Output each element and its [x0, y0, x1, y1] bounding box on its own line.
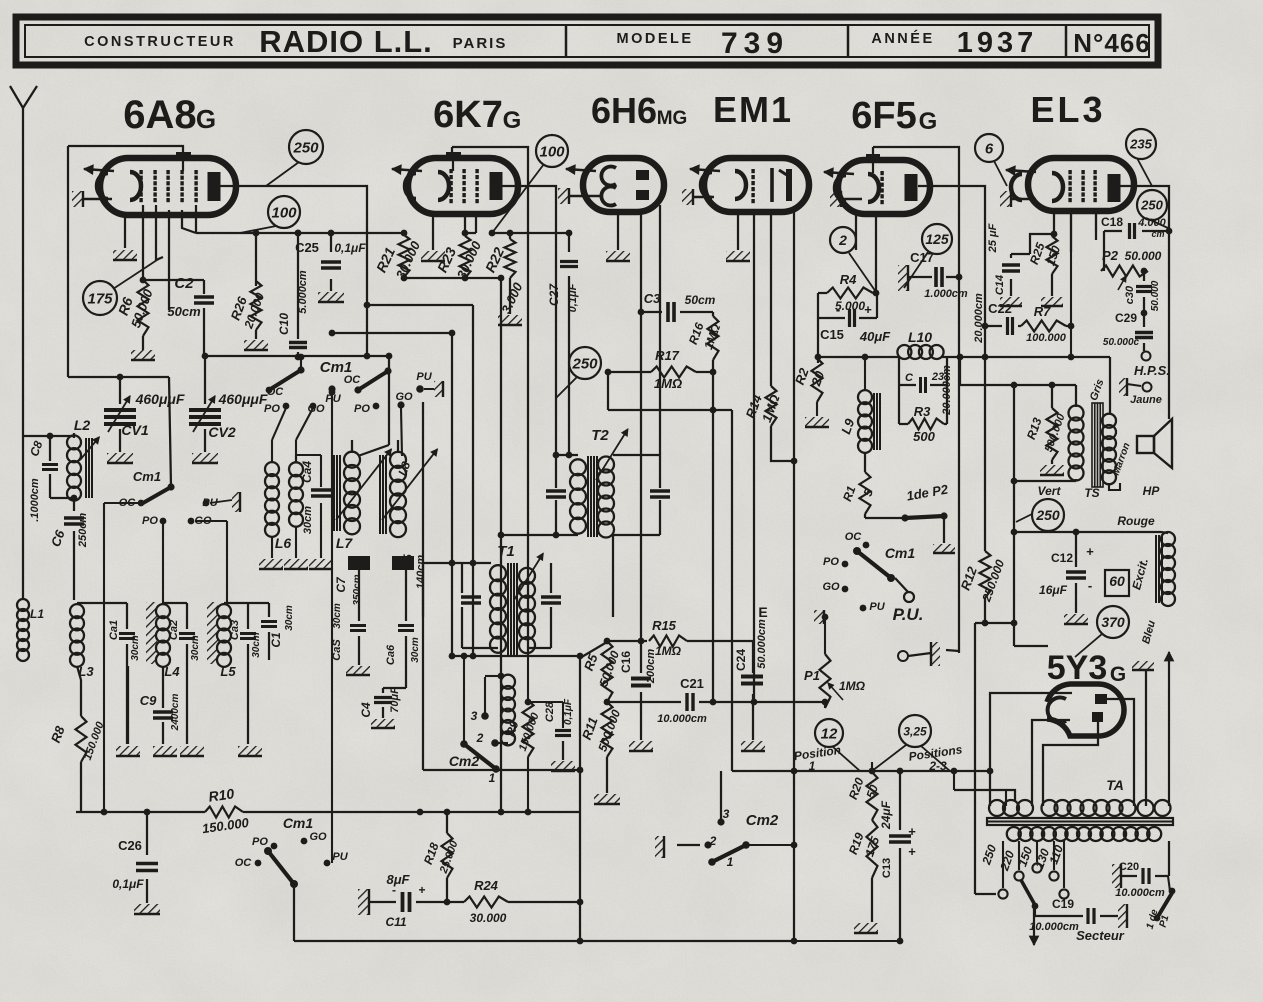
capacitor T2 left	[546, 491, 566, 497]
switch Cm1 osc blade1	[269, 366, 305, 390]
capacitor C7 block	[348, 556, 370, 570]
wire R21R23 bottoms	[401, 275, 505, 282]
label C30	[1124, 280, 1161, 311]
wire L6b feed	[296, 408, 313, 463]
label C8	[27, 439, 46, 459]
wire TS sec bot	[1109, 483, 1120, 490]
capacitor C14	[1002, 265, 1020, 271]
wire R6 bottom ground	[142, 336, 144, 350]
wire Ca3 leads	[224, 603, 248, 744]
wire Cm2R out	[746, 842, 797, 849]
svg-text:8μF: 8μF	[386, 872, 410, 887]
label R7	[1026, 304, 1067, 344]
node 175	[83, 281, 117, 315]
bus C21	[604, 699, 825, 706]
resistor R17	[651, 367, 696, 378]
wire R16	[712, 312, 714, 372]
svg-text:30cm: 30cm	[130, 635, 141, 661]
label PO osc2	[354, 403, 379, 415]
label 1deP2	[905, 481, 950, 503]
label C4	[359, 687, 401, 718]
svg-text:140cm: 140cm	[415, 555, 427, 589]
wire L6 gnds	[272, 526, 296, 558]
wire R15 line	[580, 638, 753, 658]
label C26	[112, 838, 144, 891]
capacitor CaS	[350, 626, 366, 631]
wire Ca4 gnd	[320, 503, 322, 558]
wire 5Y3 cath bottom	[1032, 720, 1070, 806]
svg-text:C28: C28	[544, 701, 556, 722]
wire x1014	[1011, 382, 1048, 646]
coil L6a	[265, 462, 279, 537]
resistor R8	[76, 716, 87, 762]
wire 6F5 anode	[918, 186, 985, 551]
label C28	[544, 698, 574, 725]
svg-text:RADIO L.L.: RADIO L.L.	[259, 24, 433, 59]
capacitor C10	[289, 343, 307, 348]
tube V3 cathode ground	[558, 188, 600, 204]
wire CV1 to Cm1 blade	[169, 377, 171, 487]
svg-text:C12: C12	[1051, 551, 1073, 565]
wire T2 cap left stubs	[555, 455, 557, 535]
label EM1	[713, 89, 793, 130]
TA taps	[1003, 841, 1064, 888]
label C25	[295, 240, 366, 255]
tube V6 anode plate	[1108, 174, 1121, 202]
wire T2 bottom	[498, 532, 578, 539]
svg-text:C25: C25	[295, 240, 319, 255]
capacitor C30	[1136, 287, 1152, 292]
svg-text:370: 370	[1101, 614, 1125, 630]
label C24	[734, 619, 768, 671]
capacitor Ca1	[119, 634, 135, 639]
wire EL3 screen	[1071, 211, 1096, 357]
resistor R23	[460, 236, 471, 278]
tube V5 grids	[880, 171, 883, 204]
label R9	[503, 710, 542, 752]
wire x501 long	[500, 278, 502, 812]
svg-text:Cm1: Cm1	[283, 815, 314, 831]
svg-text:0,1μF: 0,1μF	[567, 283, 579, 312]
wire T2 right cap	[613, 500, 660, 535]
wire Ca6 leads	[383, 570, 406, 693]
svg-text:C17: C17	[910, 250, 934, 265]
wire T1 top	[423, 560, 491, 617]
label GO osc2	[395, 391, 413, 409]
coil L7	[334, 452, 360, 535]
wallhatch PU	[931, 642, 940, 666]
wire 6K7 cathode	[432, 214, 434, 250]
tube V2 anode plate	[490, 172, 503, 200]
label C5b	[401, 554, 427, 589]
svg-text:50.000c: 50.000c	[1103, 337, 1140, 348]
variable capacitor CV2	[189, 396, 221, 432]
title divider 1	[565, 25, 568, 57]
label Jaune	[1130, 394, 1162, 406]
svg-text:739: 739	[721, 27, 789, 60]
svg-text:ANNÉE: ANNÉE	[871, 30, 934, 47]
resistor R26	[251, 281, 262, 330]
svg-text:4.000: 4.000	[1137, 217, 1166, 229]
wire C18 box	[1104, 230, 1168, 232]
node 250 mid	[569, 347, 601, 379]
wire L6a feed	[272, 408, 286, 463]
node 125	[922, 224, 952, 254]
svg-text:+: +	[864, 302, 872, 317]
svg-text:C5: C5	[401, 554, 415, 570]
svg-text:1.000cm: 1.000cm	[924, 288, 968, 300]
coil L2 arrow	[80, 437, 99, 460]
label Cm1 osc	[320, 359, 353, 376]
svg-text:C11: C11	[385, 915, 406, 929]
capacitor C15	[836, 302, 872, 327]
capacitor C16	[631, 679, 651, 686]
svg-text:50cm: 50cm	[685, 293, 716, 307]
svg-text:50.000: 50.000	[1150, 280, 1161, 311]
svg-text:GO: GO	[822, 581, 840, 593]
bus positions	[732, 768, 993, 775]
svg-text:R4: R4	[840, 272, 857, 287]
label Gris	[1088, 378, 1107, 403]
tube V1 grids	[139, 170, 197, 202]
wire Cm1b down	[293, 884, 295, 941]
tube V7 cathode	[1048, 698, 1066, 723]
wire 6K7 topcap loop	[452, 147, 528, 233]
label R18	[421, 838, 461, 875]
wire C3 line	[641, 311, 713, 313]
tube V4 grids	[751, 169, 754, 203]
wire col x104	[101, 503, 139, 815]
wire C11 line	[370, 899, 583, 906]
wire C26 v	[146, 812, 148, 903]
svg-text:100: 100	[271, 204, 297, 221]
wire R12 bottom	[975, 598, 1017, 626]
label Cm2 left	[449, 709, 496, 785]
capacitor C25	[321, 262, 341, 268]
bus y770 left	[423, 769, 580, 771]
svg-text:MG: MG	[657, 108, 688, 129]
wire GO2 to L8	[401, 408, 402, 456]
wire EM1 pin2	[751, 212, 758, 705]
label 8uF	[385, 872, 410, 929]
pointer 175	[113, 258, 160, 289]
label C17	[910, 250, 968, 300]
svg-text:6K7: 6K7	[433, 94, 503, 136]
transformer TA core	[987, 818, 1173, 825]
wire R19 gnd	[871, 878, 873, 922]
label 739	[721, 27, 789, 60]
wire T2 right top	[613, 454, 660, 456]
svg-text:Ca1: Ca1	[108, 620, 120, 640]
tube V5 top cap	[866, 154, 880, 173]
svg-text:3,25: 3,25	[903, 724, 927, 738]
capacitor C18	[1130, 223, 1135, 239]
label R16	[686, 321, 724, 352]
tube V3 cathodes	[601, 167, 616, 206]
wire C30 chain	[1141, 268, 1148, 327]
wire y941 ext	[794, 940, 900, 942]
coil L4	[146, 602, 170, 667]
svg-text:.1000cm: .1000cm	[29, 478, 41, 522]
label C21	[657, 676, 707, 725]
switch Cm1 bottom blade	[264, 847, 298, 888]
label CV2	[208, 391, 267, 440]
label PU osc1	[325, 385, 341, 405]
wire EL3 anode	[1120, 186, 1172, 419]
wire T2 sec bottom drop	[612, 535, 614, 617]
svg-text:Ca6: Ca6	[385, 644, 397, 665]
label Ca4	[300, 461, 314, 534]
svg-text:G: G	[503, 107, 522, 134]
tube V5 anode plate	[905, 174, 918, 201]
label C3	[644, 291, 716, 307]
svg-text:TS: TS	[1084, 486, 1099, 500]
label TA	[1106, 777, 1124, 793]
ground CV1	[107, 453, 133, 463]
ground C28	[551, 761, 575, 771]
resistor R4	[827, 288, 873, 299]
svg-text:T2: T2	[591, 427, 609, 444]
wire x794 down	[791, 461, 798, 944]
svg-text:2: 2	[838, 232, 847, 248]
pointer 100 bus	[240, 226, 276, 233]
pointer 250 el3	[1146, 218, 1168, 228]
svg-text:c30: c30	[1124, 285, 1136, 304]
wire anode stair	[364, 302, 473, 309]
svg-text:Cm2: Cm2	[449, 753, 480, 769]
label R20	[846, 776, 881, 802]
svg-text:6F5: 6F5	[851, 95, 916, 137]
label Vert	[1038, 484, 1062, 498]
label R14	[743, 392, 783, 424]
svg-text:10.000cm: 10.000cm	[1029, 921, 1079, 933]
wire C9 leads	[162, 666, 164, 744]
wire L10 loop sides	[899, 357, 947, 420]
capacitor C11	[392, 883, 426, 912]
wallhatch C19	[1118, 904, 1127, 928]
title divider 2	[847, 25, 850, 57]
wire C17 line	[909, 274, 962, 281]
resistor R7	[1021, 321, 1066, 332]
label L9	[838, 416, 858, 436]
label EL3	[1030, 89, 1105, 130]
label Positions23	[908, 742, 964, 773]
transformer TA secondary	[1007, 827, 1161, 841]
wire C16 v	[640, 312, 642, 673]
tube V2 heater arrow	[392, 165, 422, 174]
tube V1 top cap	[176, 152, 191, 171]
svg-text:Cm2: Cm2	[746, 812, 779, 829]
tube V4 heater arrow	[690, 165, 720, 174]
bus y941	[294, 938, 794, 945]
node 250 anode V1	[289, 130, 323, 164]
wire R23 stem	[462, 214, 476, 236]
wire TA sel down	[1034, 906, 1036, 916]
switch Cm2R blade	[708, 841, 750, 866]
svg-text:C14: C14	[994, 275, 1006, 295]
tube V2 grids	[449, 169, 478, 203]
tube V4 cathode ground	[682, 189, 714, 205]
pointer 250 mid	[556, 377, 577, 398]
wire 6A8 grid down d	[168, 210, 170, 310]
svg-text:70μF: 70μF	[389, 687, 401, 713]
transformer TA primary	[989, 800, 1171, 816]
svg-text:C9: C9	[140, 693, 157, 708]
label Ca6	[385, 637, 421, 665]
svg-text:250: 250	[1035, 507, 1060, 523]
bus mid verticals	[449, 305, 473, 659]
ground 1deP2	[933, 544, 955, 553]
svg-text:250: 250	[571, 355, 598, 372]
wire T1 cap stubs	[462, 563, 498, 648]
resistor R14	[766, 386, 777, 426]
ground L6a	[259, 559, 283, 569]
wire y333	[329, 330, 456, 337]
wire R22 bot	[509, 278, 511, 314]
pointer 12	[833, 747, 860, 771]
wire L7 top stub	[352, 440, 398, 453]
svg-text:250: 250	[292, 139, 319, 156]
wire coilbank feeds	[163, 521, 227, 605]
svg-text:PU: PU	[332, 851, 348, 863]
svg-text:+: +	[908, 844, 916, 859]
svg-text:460μμF: 460μμF	[218, 391, 268, 407]
svg-text:MODELE: MODELE	[616, 31, 693, 47]
wire 6F5 grid	[855, 214, 857, 250]
wire EL3 g pins	[1054, 211, 1096, 252]
label 6K7G	[433, 94, 521, 136]
svg-text:TA: TA	[1106, 777, 1124, 793]
ground CaS	[346, 666, 370, 675]
svg-text:L3: L3	[78, 664, 94, 679]
svg-text:-: -	[1088, 578, 1092, 593]
tube V2 6K7G envelope	[408, 158, 518, 214]
tube V1 cathode	[97, 172, 141, 200]
label C29	[1103, 311, 1140, 348]
svg-text:GO: GO	[194, 515, 212, 527]
label R6	[115, 286, 156, 329]
capacitor C3	[668, 302, 674, 322]
label CV1	[121, 391, 184, 438]
label R5	[581, 649, 622, 689]
label C22	[988, 301, 1012, 316]
wire R13 gnd	[1051, 460, 1053, 464]
wire R20 top	[871, 762, 873, 772]
svg-text:500: 500	[913, 429, 935, 444]
wire R1 bot	[865, 514, 905, 518]
wire EM1 pin4	[793, 212, 795, 461]
label 20000cm r	[941, 365, 953, 416]
wallhatch C17	[898, 265, 908, 291]
resistor R11	[602, 702, 613, 757]
wire 6H6 diode down	[638, 212, 645, 315]
wire EM1 pin3	[770, 212, 772, 386]
switch Cm2L blade	[460, 740, 500, 773]
coil L1	[17, 599, 29, 661]
svg-text:CaS: CaS	[331, 639, 343, 661]
label C13	[879, 800, 893, 878]
transformer T1 arrow	[514, 553, 543, 600]
wire C29 bot	[1143, 343, 1145, 351]
wire R4 box	[815, 290, 880, 363]
transformer T2	[570, 456, 614, 538]
ground R13	[1040, 465, 1064, 475]
wire x423 low	[422, 563, 424, 770]
svg-text:250cm: 250cm	[77, 513, 89, 548]
svg-text:125: 125	[925, 231, 949, 247]
label C23	[905, 371, 944, 384]
svg-text:Cm1: Cm1	[133, 469, 161, 484]
svg-text:R17: R17	[655, 348, 680, 363]
svg-text:25 μF: 25 μF	[987, 223, 999, 253]
svg-text:50cm: 50cm	[167, 304, 201, 319]
capacitor C23	[921, 377, 926, 393]
svg-text:PO: PO	[252, 836, 268, 848]
svg-text:2400cm: 2400cm	[170, 694, 181, 732]
svg-text:1937: 1937	[957, 27, 1038, 59]
svg-text:cm: cm	[1151, 229, 1164, 239]
wire Gris net	[960, 357, 1076, 408]
wire 6H6 right pin	[659, 205, 661, 488]
wire C27 v	[566, 230, 573, 459]
tube V2 cathode	[405, 172, 449, 200]
wire HT arrow	[1164, 652, 1173, 806]
tube V1 anode plate	[208, 172, 221, 201]
svg-text:L1: L1	[30, 607, 44, 621]
switch Cm1 mid blade	[814, 547, 914, 624]
svg-text:10.000cm: 10.000cm	[1115, 887, 1165, 899]
switch Cm1 osc blade2	[358, 367, 392, 390]
svg-text:1MΩ: 1MΩ	[655, 644, 682, 658]
wire 6F5 topcap loop	[873, 147, 959, 653]
svg-text:G: G	[1110, 663, 1126, 686]
tube V7 anodes	[1092, 694, 1107, 722]
svg-text:Cm1: Cm1	[885, 545, 916, 561]
capacitor C17	[936, 267, 942, 287]
svg-text:PO: PO	[142, 515, 158, 527]
svg-text:C2: C2	[174, 275, 194, 292]
svg-text:R15: R15	[652, 618, 677, 633]
wire L9 bot	[864, 452, 866, 472]
svg-text:460μμF: 460μμF	[135, 391, 185, 407]
label L7	[336, 535, 354, 551]
label GO osc1	[307, 403, 325, 415]
wire P2 box	[1103, 231, 1105, 271]
wire C14 branch	[1011, 234, 1054, 258]
label R15	[652, 618, 682, 658]
wire 5Y3 cath top	[990, 693, 1072, 806]
svg-text:P2: P2	[1102, 248, 1119, 263]
capacitor Ca6	[398, 626, 414, 631]
svg-text:PU: PU	[416, 371, 432, 383]
label MODELE	[616, 31, 693, 47]
label C10	[277, 270, 309, 335]
potentiometer P1	[820, 654, 844, 708]
switch Cm1 left blade	[143, 483, 175, 503]
wire C28 gnd	[562, 741, 564, 760]
ground R26	[244, 340, 268, 350]
ground 6H6	[606, 251, 630, 261]
tube V6 grids	[1068, 170, 1096, 202]
wire P1 bot	[822, 699, 829, 708]
title block frame	[16, 17, 1158, 65]
label C19	[1029, 897, 1079, 933]
label 6F5G	[851, 95, 937, 137]
capacitor C20	[1143, 868, 1149, 884]
wire x713 drop	[710, 372, 717, 705]
label 1937	[957, 27, 1038, 59]
wire CV1 stem	[117, 374, 124, 404]
